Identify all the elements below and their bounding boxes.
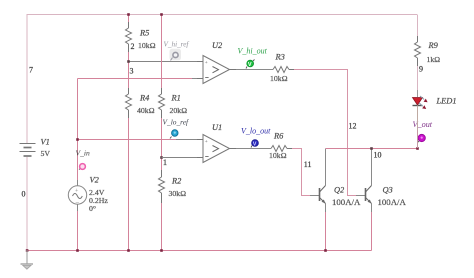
- wire Q3 emitter: [371, 204, 373, 213]
- wire Q2 base stub: [310, 195, 319, 197]
- wire U1 minus horizontal: [162, 157, 204, 159]
- svg-text:12: 12: [349, 122, 357, 131]
- junction R2 ground: [160, 249, 163, 252]
- svg-text:V_out: V_out: [413, 120, 433, 129]
- svg-text:7: 7: [29, 66, 33, 75]
- svg-text:U2: U2: [212, 41, 222, 50]
- junction Q2 ground: [324, 249, 327, 252]
- resistor R5: [126, 22, 132, 52]
- wire LED top stub: [417, 90, 419, 97]
- wire R4 to ground: [128, 118, 130, 250]
- wire U1 out to R6: [236, 148, 271, 150]
- resistor R2: [159, 170, 165, 203]
- svg-text:100A/A: 100A/A: [378, 197, 407, 207]
- wire V2 to ground rail: [77, 211, 79, 250]
- svg-text:V_hi_ref: V_hi_ref: [164, 41, 190, 49]
- svg-text:1: 1: [163, 158, 167, 167]
- svg-text:0: 0: [22, 190, 26, 199]
- junction top rail R5: [127, 13, 130, 16]
- svg-text:1kΩ: 1kΩ: [427, 55, 441, 64]
- wire R2 to ground: [161, 203, 163, 250]
- svg-text:11: 11: [304, 160, 312, 169]
- junction V_out corner: [416, 147, 419, 150]
- wire U1 plus horizontal: [78, 139, 177, 141]
- svg-text:100A/A: 100A/A: [332, 197, 361, 207]
- wire U1 plus gray run: [176, 139, 203, 141]
- svg-text:+: +: [205, 139, 208, 145]
- svg-text:Q2: Q2: [334, 186, 344, 195]
- svg-text:V_lo_ref: V_lo_ref: [163, 118, 190, 127]
- probe V_in: [79, 164, 85, 170]
- probe V_hi_ref: [170, 49, 182, 61]
- probe V_hi_out: [246, 60, 255, 69]
- wire V_in net gray stub to V2: [77, 180, 79, 186]
- wire Q3 emitter to ground: [371, 212, 373, 251]
- wire net2 to U2 plus: [129, 61, 204, 63]
- ground: [21, 250, 34, 269]
- svg-text:R1: R1: [171, 94, 181, 103]
- probe V_lo_out: [251, 140, 258, 148]
- wire Q3 base stub: [356, 195, 365, 197]
- resistor R4: [126, 88, 132, 118]
- junction top rail R1: [160, 13, 163, 16]
- wire divider left x=128 top: [128, 15, 130, 23]
- junction R4 ground: [127, 249, 130, 252]
- transistor Q2: [320, 186, 326, 204]
- svg-text:V: V: [248, 62, 252, 68]
- wire V2 bottom stub: [77, 205, 79, 212]
- svg-text:10kΩ: 10kΩ: [270, 74, 288, 83]
- svg-text:V_in: V_in: [76, 149, 91, 158]
- wire R6 to node11 corner: [292, 149, 310, 196]
- svg-text:10kΩ: 10kΩ: [138, 41, 156, 50]
- resistor R9: [415, 36, 421, 66]
- wire Q2 collector: [325, 149, 327, 186]
- wire R9 to LED: [417, 66, 419, 90]
- wire U2 minus stub: [192, 78, 203, 80]
- svg-text:R4: R4: [139, 94, 149, 103]
- wire Q2 emitter to ground: [325, 212, 327, 250]
- svg-text:V_hi_out: V_hi_out: [238, 47, 268, 56]
- svg-text:0°: 0°: [89, 204, 96, 213]
- wire top rail 5V net: [27, 15, 417, 144]
- probe V_lo_ref: [170, 130, 178, 139]
- wire Q3 collector: [371, 149, 373, 186]
- wire Q2 emitter: [325, 204, 327, 213]
- probe V_out: [418, 134, 426, 142]
- svg-text:5V: 5V: [41, 149, 51, 158]
- wire LED stub to corner: [417, 130, 419, 148]
- transistor Q3: [366, 186, 372, 204]
- junction Q3 collector node10: [370, 147, 373, 150]
- op-amp U1: [197, 135, 236, 163]
- svg-text:40kΩ: 40kΩ: [137, 106, 155, 115]
- svg-text:3: 3: [130, 67, 134, 76]
- svg-text:V: V: [253, 142, 257, 148]
- svg-text:Q3: Q3: [383, 186, 393, 195]
- junction V_in: [76, 138, 79, 141]
- svg-text:10: 10: [374, 151, 382, 160]
- wire node10 collectors to LED: [326, 112, 418, 149]
- svg-text:9: 9: [419, 65, 423, 74]
- svg-text:30kΩ: 30kΩ: [169, 189, 187, 198]
- svg-text:R6: R6: [273, 132, 284, 141]
- junction net2: [127, 60, 130, 63]
- svg-text:R2: R2: [171, 177, 181, 186]
- LED LED1: [413, 96, 428, 109]
- svg-text:V_lo_out: V_lo_out: [241, 127, 271, 136]
- wire R3 to node12 corner: [294, 70, 356, 196]
- junction V2 ground: [76, 249, 79, 252]
- resistor R3: [273, 67, 294, 73]
- wire V_in net vertical: [77, 79, 79, 181]
- svg-text:R3: R3: [275, 53, 285, 62]
- svg-text:R5: R5: [139, 29, 149, 38]
- wire R1 to node1: [161, 118, 163, 170]
- svg-text:20kΩ: 20kΩ: [170, 106, 188, 115]
- wire R5 to junction: [128, 52, 130, 88]
- junction rail corner: [26, 249, 29, 252]
- svg-text:U1: U1: [212, 123, 222, 132]
- svg-text:R9: R9: [428, 41, 439, 50]
- wire divider right x=161 top: [161, 15, 163, 89]
- wire bottom ground rail: [27, 250, 372, 252]
- battery V1: [20, 144, 36, 157]
- junction node1: [160, 156, 163, 159]
- wire left rail battery to ground: [26, 157, 28, 250]
- svg-text:10kΩ: 10kΩ: [269, 151, 287, 160]
- svg-text:2: 2: [131, 42, 135, 51]
- wire node 3 horizontal to U2 minus: [78, 78, 193, 80]
- resistor R6: [271, 146, 292, 152]
- source V2: [68, 186, 86, 207]
- svg-text:LED1: LED1: [436, 97, 457, 106]
- op-amp U2: [197, 56, 236, 84]
- wire right rail down to R9: [417, 15, 419, 37]
- svg-text:V2: V2: [90, 176, 99, 185]
- resistor R1: [159, 88, 165, 118]
- wire U2 out to R3: [236, 69, 273, 71]
- svg-text:V1: V1: [41, 138, 50, 147]
- wire LED bottom stub: [417, 106, 419, 131]
- svg-text:+: +: [205, 60, 208, 66]
